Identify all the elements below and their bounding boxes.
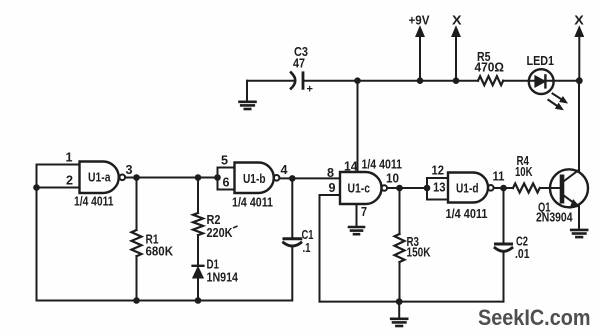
svg-text:14: 14	[344, 159, 358, 174]
svg-text:1/4 4011: 1/4 4011	[74, 195, 114, 209]
svg-text:2N3904: 2N3904	[536, 211, 573, 225]
svg-text:6: 6	[223, 175, 230, 190]
svg-text:10: 10	[386, 171, 399, 186]
svg-text:9: 9	[329, 180, 336, 195]
svg-text:1: 1	[66, 150, 73, 165]
svg-text:1/4 4011: 1/4 4011	[446, 207, 488, 221]
svg-text:8: 8	[327, 165, 334, 180]
svg-text:680K: 680K	[146, 245, 174, 259]
svg-text:SeekIC.com: SeekIC.com	[478, 305, 591, 330]
svg-text:.01: .01	[515, 247, 530, 261]
svg-text:13: 13	[433, 180, 446, 195]
svg-text:4: 4	[281, 162, 289, 177]
svg-text:7: 7	[361, 204, 367, 219]
svg-text:3: 3	[126, 162, 133, 177]
svg-text:U1-d: U1-d	[456, 182, 479, 196]
svg-text:47: 47	[293, 57, 305, 71]
svg-text:10K: 10K	[515, 165, 533, 179]
svg-text:470Ω: 470Ω	[475, 61, 505, 75]
svg-text:5: 5	[221, 153, 228, 168]
svg-text:R2: R2	[207, 213, 221, 227]
svg-text:.1: .1	[303, 241, 311, 255]
svg-text:U1-b: U1-b	[243, 172, 266, 186]
svg-text:D1: D1	[207, 258, 220, 272]
svg-text:+9V: +9V	[409, 14, 431, 28]
svg-text:LED1: LED1	[527, 54, 555, 68]
svg-text:11: 11	[493, 169, 505, 184]
svg-text:C1: C1	[302, 228, 314, 242]
svg-text:X: X	[574, 14, 584, 28]
svg-text:1/4 4011: 1/4 4011	[362, 158, 403, 172]
svg-text:+: +	[307, 84, 313, 96]
svg-text:2: 2	[66, 173, 73, 188]
svg-text:12: 12	[432, 163, 445, 178]
svg-text:1N914: 1N914	[207, 271, 239, 285]
svg-text:U1-c: U1-c	[348, 182, 371, 196]
svg-text:220K: 220K	[207, 226, 233, 240]
svg-text:1/4 4011: 1/4 4011	[232, 196, 273, 210]
svg-text:U1-a: U1-a	[88, 171, 111, 185]
svg-text:150K: 150K	[407, 246, 431, 260]
svg-text:X: X	[452, 14, 462, 28]
